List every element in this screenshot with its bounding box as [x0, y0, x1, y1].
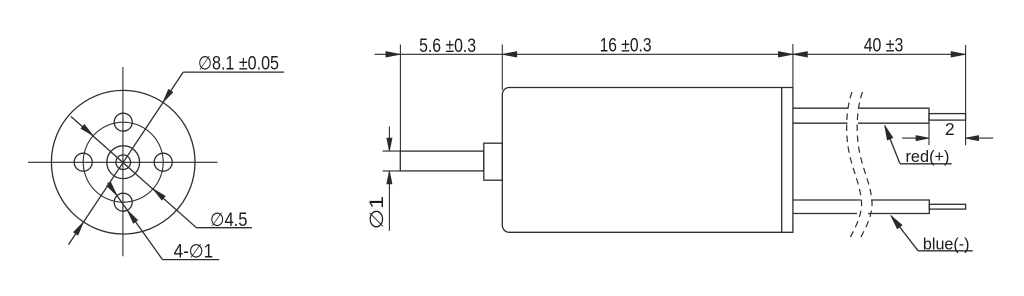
svg-text:4-∅1: 4-∅1 — [174, 242, 214, 263]
shaft circle inner — [116, 155, 131, 170]
hole bottom — [114, 193, 132, 211]
ext line wire end — [965, 45, 967, 145]
dia 4.5 arrow lower-right — [153, 189, 165, 200]
arrow left at body-right ext — [793, 52, 808, 58]
dim 2 ext left — [928, 123, 930, 145]
dia1 shaft bottom ext — [383, 170, 401, 172]
svg-text:red(+): red(+) — [906, 147, 950, 166]
4-dia1 leader line — [108, 183, 163, 260]
red(+) arrow — [885, 125, 893, 140]
dia 8.1 underline — [183, 71, 284, 73]
4-dia1 arrow lower — [127, 210, 137, 223]
break curve left — [847, 92, 862, 238]
dia 4.5 dimension diagonal — [71, 117, 196, 228]
ext line body left — [501, 45, 503, 91]
dim 2 line left tail — [902, 137, 929, 139]
hole left — [74, 153, 92, 171]
dia1 dim line upper — [388, 127, 390, 152]
svg-text:16 ±0.3: 16 ±0.3 — [600, 36, 652, 57]
blue(-) leader — [891, 216, 918, 251]
dim 2 arrow right — [916, 136, 929, 141]
horizontal centerline — [28, 161, 218, 163]
vertical centerline — [122, 67, 124, 256]
svg-text:5.6 ±0.3: 5.6 ±0.3 — [419, 36, 476, 57]
ext line body right — [792, 44, 794, 88]
end cap line — [781, 88, 783, 233]
bolt circle — [83, 122, 163, 202]
dia 8.1 arrow upper-right — [163, 89, 173, 102]
conductor bottom — [929, 204, 965, 209]
svg-text:2: 2 — [945, 119, 955, 139]
arrow left at body-left ext — [502, 52, 517, 58]
dia 8.1 arrow lower-left — [74, 222, 84, 235]
red(+) leader — [885, 125, 900, 163]
dim 2 arrow left — [966, 136, 979, 141]
hole top — [114, 113, 132, 131]
dia1 dim line lower — [388, 171, 390, 231]
4-dia1 arrow upper — [107, 183, 117, 196]
break curve right — [857, 92, 872, 238]
dia 4.5 arrow upper-left — [81, 125, 93, 136]
conductor top — [929, 114, 966, 121]
arrow right at shaft ext — [386, 52, 401, 58]
dia 4.5 underline — [196, 227, 252, 229]
dia1 arrow down — [387, 138, 392, 151]
hole right — [154, 153, 172, 171]
bearing boss circle — [107, 146, 140, 179]
wire top — [793, 108, 929, 123]
dia1 arrow up — [387, 171, 392, 184]
red(+) underline — [900, 163, 952, 165]
blue(-) underline — [918, 250, 973, 252]
arrow right at body-right ext — [778, 52, 793, 58]
top dimension line — [375, 53, 966, 55]
blue(-) arrow — [891, 216, 902, 229]
dim 2 line right tail — [966, 137, 994, 139]
wire bottom — [793, 200, 929, 214]
4-dia1 underline — [163, 259, 220, 261]
ext line shaft end — [399, 45, 401, 152]
svg-text:blue(-): blue(-) — [923, 235, 970, 254]
arrow right at wire-end ext — [951, 52, 966, 58]
svg-text:40 ±3: 40 ±3 — [864, 36, 904, 57]
svg-text:∅1: ∅1 — [367, 196, 388, 230]
collar — [484, 143, 503, 180]
dia 8.1 dimension diagonal — [69, 72, 184, 245]
svg-text:∅8.1 ±0.05: ∅8.1 ±0.05 — [198, 54, 279, 75]
shaft — [400, 151, 484, 171]
motor body outer circle — [51, 90, 195, 234]
svg-text:∅4.5: ∅4.5 — [210, 210, 248, 231]
dia1 shaft top ext — [383, 150, 401, 152]
motor body — [502, 88, 793, 233]
